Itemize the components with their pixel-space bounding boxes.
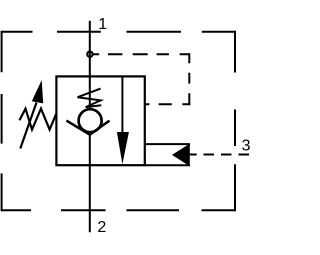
port 3 dashed line <box>204 154 250 156</box>
enclosure left border (dashed) <box>1 31 3 212</box>
svg-text:2: 2 <box>97 219 106 236</box>
pilot dashed line vertical leg <box>188 53 190 104</box>
pilot dashed line horizontal from node <box>93 53 189 55</box>
enclosure right border (dashed) <box>234 31 236 212</box>
valve body box <box>56 76 144 165</box>
port 3 channel top line <box>145 143 190 145</box>
check valve spring <box>78 89 102 108</box>
port 3 stub line <box>190 154 197 156</box>
relief flow path line <box>121 76 123 135</box>
pilot dashed line return leg to box <box>145 103 190 105</box>
enclosure top border (dashed) <box>2 31 236 33</box>
port 2 line <box>89 135 91 233</box>
svg-text:1: 1 <box>98 16 107 33</box>
check valve ball <box>79 109 102 132</box>
port 3 arrowhead <box>172 144 190 167</box>
adjustment spring <box>20 109 57 130</box>
enclosure bottom border (dashed) <box>2 209 236 211</box>
relief flow arrowhead <box>117 132 129 164</box>
check valve seat <box>66 121 109 135</box>
adjustment arrowhead <box>32 80 43 103</box>
junction dot node <box>87 52 92 57</box>
svg-text:3: 3 <box>242 137 250 154</box>
inlet line inside box <box>89 76 91 109</box>
adjustment arrow shaft <box>20 103 36 149</box>
port 1 line <box>89 21 91 78</box>
port 3 channel bottom line <box>145 164 190 166</box>
